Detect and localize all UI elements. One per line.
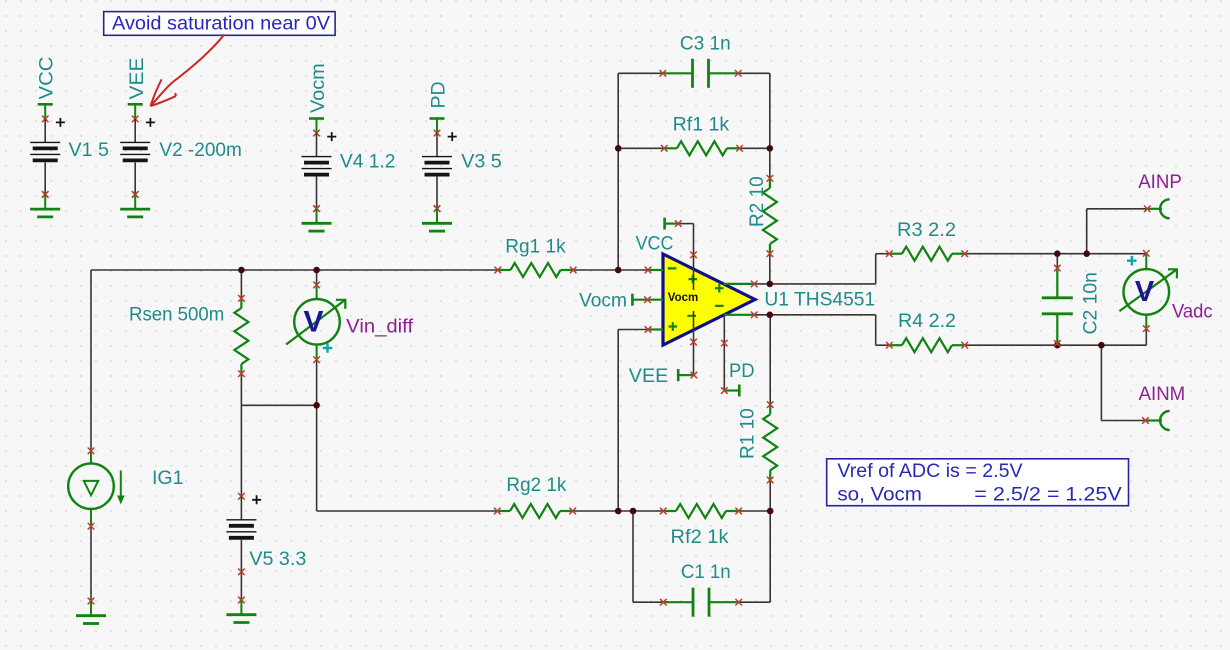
op-amp output+ pin bbox=[724, 283, 755, 285]
op-amp +in pin bbox=[648, 328, 663, 330]
wire C2 bottom stub bbox=[1056, 344, 1058, 346]
wire R4 to Vadc bottom / AINM bus bbox=[966, 344, 1146, 346]
svg-text:V4 1.2: V4 1.2 bbox=[340, 151, 396, 173]
junction Rsen/main bus bbox=[238, 267, 245, 274]
wire opamp +in riser bbox=[618, 329, 648, 331]
svg-text:C2 10n: C2 10n bbox=[1080, 272, 1102, 334]
wire upper output to R3 bbox=[754, 283, 876, 285]
svg-text:Vin_diff: Vin_diff bbox=[346, 316, 413, 338]
IG1 direction arrow bbox=[120, 471, 122, 498]
port AINP bbox=[1147, 208, 1162, 210]
svg-text:C3 1n: C3 1n bbox=[680, 33, 731, 55]
wire R1 bottom to node bbox=[769, 480, 771, 511]
port AINM bbox=[1145, 419, 1162, 421]
svg-text:U1 THS4551: U1 THS4551 bbox=[764, 289, 875, 311]
wire C1 right riser bbox=[739, 601, 771, 603]
wire node A riser up to feedback loop bbox=[617, 73, 619, 270]
op-amp VCC pin wire and terminal bbox=[663, 218, 666, 230]
wire Rsen bottom to V5 bbox=[240, 374, 242, 497]
resistor Rsen 500m bbox=[240, 298, 242, 308]
capacitor C2 10n bbox=[1056, 268, 1058, 298]
red annotation arrow to VEE bbox=[151, 35, 225, 107]
svg-text:PD: PD bbox=[729, 360, 755, 382]
op-amp PD pin wire and terminal bbox=[723, 316, 725, 391]
junction Vin_diff/main bus bbox=[313, 267, 320, 274]
voltmeter Vin_diff bbox=[316, 285, 318, 299]
wire AINP branch bbox=[1086, 209, 1088, 254]
svg-text:so, Vocm: so, Vocm bbox=[837, 484, 922, 505]
junction Rf1 right / C3 / R2 bbox=[767, 145, 774, 152]
wire AINM branch bbox=[1100, 345, 1102, 420]
svg-text:AINM: AINM bbox=[1139, 383, 1186, 405]
battery V3 (PD supply) bbox=[430, 117, 445, 120]
wire main input bus y=270 bbox=[91, 269, 498, 271]
note box Vref of ADC bbox=[827, 459, 1129, 506]
svg-text:V1 5: V1 5 bbox=[69, 139, 110, 161]
wire C1 left riser bbox=[632, 511, 634, 602]
svg-text:IG1: IG1 bbox=[152, 467, 183, 489]
svg-text:VCC: VCC bbox=[636, 233, 674, 255]
wire left riser to IG1 bbox=[90, 270, 92, 451]
svg-text:Rf2 1k: Rf2 1k bbox=[671, 526, 729, 548]
wire Rf1 right bbox=[741, 147, 770, 149]
wire C2 top stub bbox=[1056, 254, 1058, 268]
resistor Rf2 1k bbox=[663, 510, 676, 512]
wire Vin_diff bottom stub bbox=[316, 360, 318, 406]
junction node A (Rg1 out / -in / feedback) bbox=[615, 267, 622, 274]
ground under V2 bbox=[132, 191, 139, 198]
wire R2 bottom to output node bbox=[769, 254, 771, 284]
wire R1 top to output node bbox=[769, 315, 771, 405]
svg-text:Rg2 1k: Rg2 1k bbox=[506, 474, 566, 496]
capacitor C1 1n bbox=[663, 601, 693, 603]
svg-text:C1 1n: C1 1n bbox=[681, 561, 731, 583]
wire Rf2 right to node bbox=[740, 510, 770, 512]
svg-text:VEE: VEE bbox=[126, 58, 148, 100]
resistor R4 2.2 bbox=[889, 344, 902, 346]
svg-text:V3 5: V3 5 bbox=[461, 151, 502, 173]
wire Rsen/V5 branch to Vin_diff node bbox=[241, 404, 316, 406]
junction upper output node bbox=[767, 281, 774, 288]
svg-text:AINP: AINP bbox=[1138, 171, 1182, 193]
ground under V3 bbox=[434, 205, 441, 212]
ground under V5 bbox=[238, 597, 245, 604]
wire top loop to C3 left bbox=[618, 72, 663, 74]
junction C2 top bbox=[1054, 250, 1061, 257]
junction Rg2 / +in riser bbox=[615, 508, 622, 515]
svg-text:V5 3.3: V5 3.3 bbox=[249, 548, 306, 570]
wire Rf1 left bbox=[618, 147, 663, 149]
svg-text:VCC: VCC bbox=[36, 57, 58, 100]
junction AINP branch bbox=[1083, 250, 1090, 257]
ground under IG1 bbox=[88, 598, 95, 605]
junction lower output node bbox=[767, 312, 774, 319]
note box Avoid saturation near 0V bbox=[104, 12, 335, 36]
svg-text:Rsen 500m: Rsen 500m bbox=[129, 304, 224, 326]
svg-text:Vocm: Vocm bbox=[307, 63, 329, 113]
svg-text:R3 2.2: R3 2.2 bbox=[897, 219, 956, 241]
wire lower output to R4 bbox=[754, 314, 876, 316]
svg-text:PD: PD bbox=[428, 81, 450, 108]
svg-text:Vocm: Vocm bbox=[668, 292, 698, 304]
svg-text:= 2.5/2 = 1.25V: = 2.5/2 = 1.25V bbox=[974, 484, 1122, 505]
junction AINM branch bbox=[1098, 342, 1105, 349]
junction Rf1 left / C3 loop bbox=[615, 145, 622, 152]
svg-text:V: V bbox=[1135, 276, 1155, 308]
junction Vin_diff bottom node bbox=[313, 402, 320, 409]
resistor Rg1 1k bbox=[498, 269, 511, 271]
svg-text:V2 -200m: V2 -200m bbox=[159, 139, 241, 161]
wire C3 right down to Rf1 right bbox=[738, 72, 770, 74]
svg-text:Avoid saturation near 0V: Avoid saturation near 0V bbox=[112, 12, 330, 34]
voltmeter Vadc bbox=[1145, 253, 1147, 269]
wire R3 to Vadc top / AINP bus bbox=[966, 253, 1146, 255]
svg-text:R4 2.2: R4 2.2 bbox=[898, 310, 956, 332]
battery V2 (VEE supply) bbox=[128, 103, 143, 106]
op-amp -in pin bbox=[648, 269, 663, 271]
svg-text:V: V bbox=[303, 306, 323, 339]
resistor R2 10 bbox=[769, 178, 771, 188]
capacitor C3 1n bbox=[663, 72, 693, 74]
wire IG1 bottom to ground bbox=[90, 526, 92, 601]
svg-text:Vadc: Vadc bbox=[1172, 301, 1213, 323]
wire Rg2 to Rf2 bbox=[573, 510, 662, 512]
svg-text:VEE: VEE bbox=[629, 365, 669, 387]
svg-text:Rg1 1k: Rg1 1k bbox=[505, 236, 566, 258]
svg-text:Vocm: Vocm bbox=[579, 290, 627, 312]
junction Rg2 / C1 riser bbox=[630, 508, 637, 515]
svg-text:R1 10: R1 10 bbox=[738, 408, 759, 459]
resistor R1 10 bbox=[769, 405, 771, 415]
wire V5 bottom to ground bbox=[240, 572, 242, 600]
wire Rf1 node down to R2 bbox=[769, 148, 771, 178]
wire Vin_diff top stub bbox=[316, 270, 318, 285]
current source IG1 bbox=[90, 451, 92, 464]
op-amp input/output polarity signs bbox=[668, 268, 724, 330]
resistor R3 2.2 bbox=[889, 253, 902, 255]
op-amp U1 THS4551 triangle bbox=[663, 254, 755, 345]
ground under V4 bbox=[313, 205, 320, 212]
op-amp VEE pin wire and terminal bbox=[677, 369, 680, 381]
resistor Rf1 1k bbox=[664, 147, 677, 149]
wire Rsen top stub bbox=[240, 270, 242, 298]
wire Vin_diff node down to Rg2 row bbox=[316, 405, 318, 511]
resistor Rg2 1k bbox=[497, 510, 510, 512]
op-amp output- pin bbox=[724, 314, 754, 316]
svg-text:Rf1 1k: Rf1 1k bbox=[673, 114, 730, 136]
ground under V1 bbox=[42, 191, 49, 198]
battery V4 (Vocm reference) bbox=[309, 117, 324, 120]
svg-text:Vref of ADC is = 2.5V: Vref of ADC is = 2.5V bbox=[837, 461, 1023, 482]
battery V5 3.3 bbox=[238, 493, 245, 500]
op-amp vocm pin and terminal bbox=[631, 294, 634, 306]
junction Rf2 / R1 / C1 node bbox=[767, 508, 774, 515]
battery V1 (VCC supply) bbox=[38, 103, 53, 106]
svg-text:R2 10: R2 10 bbox=[747, 176, 768, 227]
junction C2 bottom bbox=[1054, 342, 1061, 349]
